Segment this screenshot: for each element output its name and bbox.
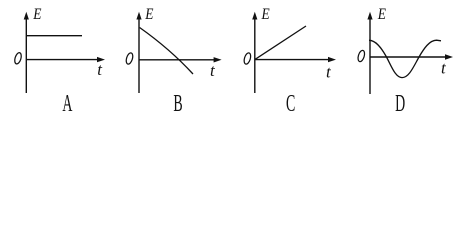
svg-text:A: A [62, 91, 73, 117]
graph line A: constant E [27, 35, 82, 37]
svg-text:D: D [395, 91, 405, 117]
t axis arrowhead A [97, 57, 105, 62]
svg-text:E: E [32, 6, 41, 23]
svg-text:E: E [144, 6, 153, 23]
E axis B [138, 17, 140, 93]
panel C [243, 6, 336, 117]
t axis A [26, 59, 98, 61]
E axis arrowhead C [252, 12, 257, 20]
graph line C: rising from origin [255, 26, 306, 60]
choice label D [395, 91, 405, 117]
t axis arrowhead C [328, 57, 336, 62]
t axis B [139, 59, 215, 61]
t axis arrowhead D [445, 54, 453, 59]
panel B [125, 6, 222, 117]
choice label A [62, 91, 73, 117]
t axis arrowhead B [214, 57, 222, 62]
E axis C [254, 17, 256, 93]
E axis A [25, 17, 27, 93]
E axis D [369, 17, 371, 94]
graph curve D: sinusoid [369, 40, 441, 77]
svg-text:E: E [261, 6, 270, 23]
svg-text:B: B [173, 91, 182, 117]
panel D [357, 6, 453, 117]
E axis arrowhead A [24, 12, 29, 20]
E axis arrowhead B [136, 12, 141, 20]
O label C [243, 52, 252, 65]
svg-text:C: C [286, 91, 295, 117]
O label B [125, 52, 134, 65]
t axis C [255, 59, 330, 61]
choice label C [286, 91, 295, 117]
E axis arrowhead D [367, 12, 372, 20]
choice label B [173, 91, 182, 117]
O label D [357, 50, 366, 63]
O label A [14, 52, 23, 65]
panel A [14, 6, 105, 117]
svg-text:E: E [377, 6, 386, 23]
t axis D [370, 56, 447, 58]
graph line B: decreasing through axis [140, 28, 193, 75]
